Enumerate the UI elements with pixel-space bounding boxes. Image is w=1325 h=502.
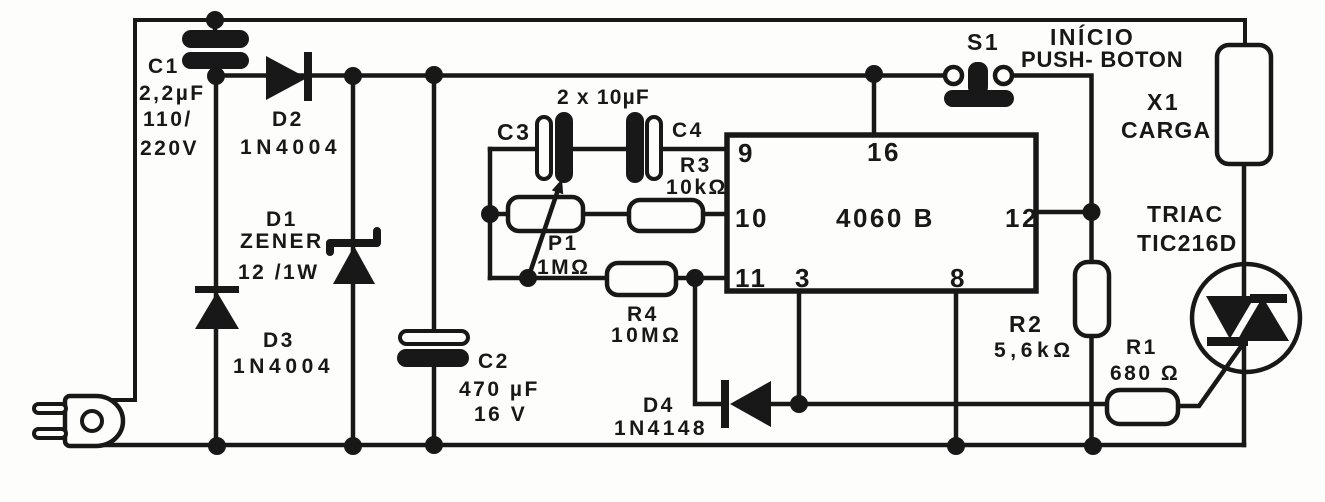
svg-text:1N4004: 1N4004: [233, 355, 334, 378]
svg-text:P1: P1: [548, 232, 579, 255]
svg-text:D2: D2: [272, 108, 304, 131]
svg-text:10: 10: [735, 203, 769, 233]
svg-text:2,2µF: 2,2µF: [139, 82, 206, 105]
svg-text:680 Ω: 680 Ω: [1110, 362, 1180, 385]
svg-text:2 x 10µF: 2 x 10µF: [557, 86, 650, 109]
svg-text:1MΩ: 1MΩ: [537, 256, 591, 279]
svg-text:220V: 220V: [140, 137, 199, 160]
svg-text:TIC216D: TIC216D: [1137, 230, 1237, 256]
svg-text:11: 11: [735, 263, 768, 293]
svg-text:PUSH- BOTON: PUSH- BOTON: [1021, 47, 1183, 72]
svg-text:D3: D3: [263, 329, 295, 352]
svg-text:12: 12: [1005, 203, 1039, 233]
svg-text:R3: R3: [680, 154, 712, 177]
svg-text:D4: D4: [643, 394, 675, 417]
svg-text:R4: R4: [627, 303, 659, 326]
svg-text:R1: R1: [1126, 336, 1158, 359]
svg-text:CARGA: CARGA: [1121, 117, 1211, 143]
svg-text:C1: C1: [148, 55, 180, 78]
svg-text:D1: D1: [266, 208, 298, 231]
svg-text:470 µF: 470 µF: [459, 378, 540, 401]
svg-text:110/: 110/: [143, 108, 193, 131]
svg-text:9: 9: [738, 138, 755, 168]
svg-text:1N4148: 1N4148: [614, 417, 708, 440]
svg-text:C4: C4: [672, 119, 704, 142]
svg-text:ZENER: ZENER: [240, 230, 324, 253]
svg-text:S1: S1: [967, 29, 1000, 55]
svg-text:R2: R2: [1009, 311, 1043, 337]
svg-text:TRIAC: TRIAC: [1147, 201, 1223, 227]
svg-text:16 V: 16 V: [474, 403, 527, 426]
svg-text:C2: C2: [478, 350, 510, 373]
svg-text:16: 16: [867, 137, 901, 167]
svg-text:10MΩ: 10MΩ: [611, 324, 682, 347]
svg-text:3: 3: [795, 263, 812, 293]
svg-text:INÍCIO: INÍCIO: [1050, 23, 1135, 50]
svg-text:X1: X1: [1147, 89, 1180, 115]
svg-text:8: 8: [950, 263, 967, 293]
svg-text:C3: C3: [497, 119, 531, 145]
svg-text:4060 B: 4060 B: [836, 203, 935, 233]
svg-text:10kΩ: 10kΩ: [666, 176, 728, 199]
svg-text:5,6kΩ: 5,6kΩ: [994, 339, 1075, 362]
svg-text:1N4004: 1N4004: [240, 136, 341, 159]
svg-text:12 /1W: 12 /1W: [238, 261, 320, 284]
